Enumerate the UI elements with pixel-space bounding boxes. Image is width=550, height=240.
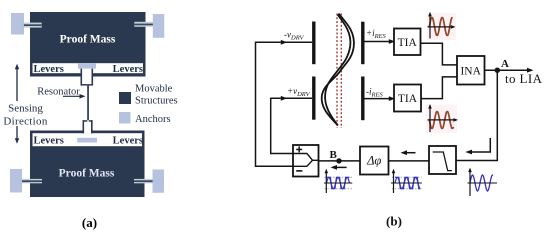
svg-text:INA: INA	[460, 66, 481, 78]
svg-text:TIA: TIA	[398, 37, 418, 49]
svg-text:Direction: Direction	[3, 115, 47, 127]
svg-text:Levers: Levers	[113, 64, 143, 75]
svg-text:Levers: Levers	[34, 135, 64, 146]
svg-text:Proof Mass: Proof Mass	[60, 34, 116, 46]
svg-text:Anchors: Anchors	[135, 114, 171, 125]
svg-text:TIA: TIA	[398, 93, 418, 105]
svg-text:(a): (a)	[82, 215, 97, 230]
svg-text:Sensing: Sensing	[8, 103, 43, 115]
svg-text:Levers: Levers	[113, 135, 143, 146]
svg-text:Structures: Structures	[135, 96, 178, 107]
svg-text:Proof Mass: Proof Mass	[59, 168, 115, 180]
svg-text:to LIA: to LIA	[505, 71, 543, 86]
svg-text:B: B	[330, 149, 338, 161]
svg-text:Resonator: Resonator	[37, 86, 80, 97]
svg-text:A: A	[501, 58, 509, 70]
svg-text:(b): (b)	[386, 214, 402, 229]
svg-text:Δφ: Δφ	[366, 153, 381, 167]
svg-text:Levers: Levers	[34, 64, 64, 75]
svg-text:Movable: Movable	[135, 84, 173, 95]
